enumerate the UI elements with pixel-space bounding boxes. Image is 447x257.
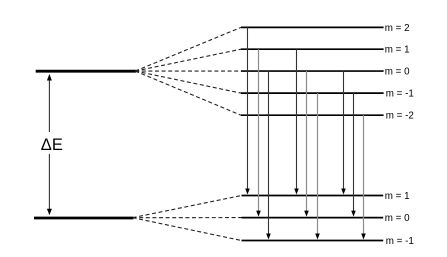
- upper split level m=2: [241, 26, 384, 28]
- transition m=0 to m=-1: [266, 71, 271, 239]
- transition m=-1 to m=-1: [315, 93, 320, 239]
- transition m=2 to m=1: [245, 27, 250, 194]
- transition m=0 to m=1: [341, 71, 346, 194]
- transition m=-2 to m=-1: [361, 115, 366, 239]
- lower split level m=-1: [242, 240, 384, 242]
- dashed fan lower to m=1: [133, 196, 242, 218]
- label m = -1 lower: [386, 236, 414, 247]
- dashed fan lower to m=0: [133, 217, 242, 219]
- delta-E label: [41, 136, 63, 154]
- lower unsplit energy level (thick line): [34, 217, 134, 220]
- transition m=-1 to m=0: [351, 93, 356, 217]
- label m = 1 lower: [385, 191, 410, 202]
- dashed fan lower to m=-1: [133, 218, 242, 241]
- svg-text:m = 1: m = 1: [385, 45, 410, 56]
- transition m=1 to m=0: [256, 49, 261, 216]
- label m = 0 lower: [385, 213, 410, 224]
- svg-text:m = 0: m = 0: [385, 213, 410, 224]
- delta-E double arrow shaft (upper segment): [48, 78, 50, 132]
- label m = 1 upper: [385, 45, 410, 56]
- lower split level m=0: [242, 217, 384, 219]
- delta-E arrowhead up: [47, 74, 52, 81]
- svg-text:m = -1: m = -1: [386, 89, 414, 100]
- dashed fan upper to m=2: [135, 27, 241, 71]
- svg-text:m = 1: m = 1: [385, 191, 410, 202]
- label m = -1 upper: [386, 89, 414, 100]
- dashed fan upper to m=-1: [135, 71, 241, 93]
- svg-text:ΔE: ΔE: [41, 136, 63, 154]
- label m = 0 upper: [385, 66, 410, 77]
- delta-E double arrow shaft (lower segment): [48, 154, 50, 210]
- label m = 2: [385, 23, 410, 34]
- svg-text:m = 2: m = 2: [385, 23, 410, 34]
- lower split level m=1: [242, 195, 384, 197]
- svg-text:m = -1: m = -1: [386, 236, 414, 247]
- upper split level m=1: [241, 48, 384, 50]
- delta-E arrowhead down: [47, 209, 52, 216]
- svg-text:m = 0: m = 0: [385, 66, 410, 77]
- upper split level m=0: [241, 70, 384, 72]
- svg-text:m = -2: m = -2: [386, 111, 414, 122]
- transition m=0 to m=0: [304, 71, 309, 217]
- upper split level m=-2: [241, 114, 384, 116]
- dashed fan upper to m=0: [135, 70, 241, 72]
- upper split level m=-1: [241, 92, 384, 94]
- dashed fan upper to m=1: [135, 49, 241, 71]
- transition m=1 to m=1: [294, 49, 299, 194]
- dashed fan upper to m=-2: [135, 71, 241, 115]
- label m = -2 upper: [386, 111, 414, 122]
- upper unsplit energy level (thick line): [36, 70, 137, 73]
